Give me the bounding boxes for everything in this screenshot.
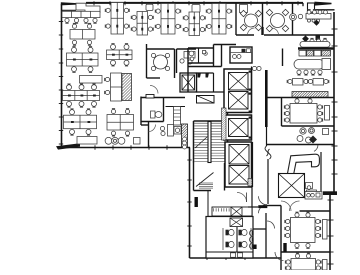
west wall of lower wing	[189, 148, 191, 259]
corridor poche wall	[265, 70, 268, 127]
north wall	[86, 2, 303, 4]
desk cluster	[131, 12, 153, 36]
stadium sofa table	[300, 42, 330, 48]
desk cluster	[105, 3, 129, 35]
door arc office SW	[267, 221, 275, 229]
pantry	[230, 47, 252, 63]
lower office walls	[141, 122, 149, 148]
urinals	[250, 230, 254, 249]
stair treads	[194, 123, 227, 161]
east wall lower ticks	[328, 200, 334, 264]
elevator shaft A	[224, 69, 252, 113]
thick wall under room A	[298, 47, 334, 49]
wc sinks	[189, 51, 207, 61]
small black square	[253, 245, 256, 250]
vestibule below stairs	[194, 163, 225, 191]
core small rooms	[197, 73, 229, 92]
lower wing west ticks	[187, 160, 191, 246]
north wall ticks	[94, 1, 298, 5]
elevator cab 5	[229, 166, 249, 185]
meeting room walls	[147, 44, 175, 78]
suite door arcs	[267, 201, 300, 211]
office desk	[180, 52, 195, 65]
wc room walls	[141, 98, 164, 122]
toilet 2	[239, 230, 242, 236]
entrance canopy taper	[315, 2, 332, 6]
side table	[80, 76, 103, 84]
scatter diamond 1	[314, 20, 320, 26]
lounge room west wall	[282, 49, 284, 67]
door bump	[146, 95, 154, 99]
hall wall	[141, 97, 185, 126]
room D north wall	[300, 210, 331, 212]
south wall of lower wing	[190, 257, 282, 259]
reception xbox	[231, 207, 242, 216]
entry column box	[303, 3, 315, 12]
desk cluster C	[64, 109, 97, 135]
east wall upper	[333, 12, 335, 192]
elevator shaft C	[225, 142, 252, 187]
lounge corner chairs	[297, 128, 315, 144]
desk cluster	[155, 4, 180, 35]
service elevator	[180, 73, 197, 92]
elevator cab 4	[229, 145, 249, 165]
desk cluster	[183, 12, 205, 36]
door arc room 2	[272, 28, 279, 35]
desk cluster	[206, 4, 231, 35]
lower office desk	[160, 125, 181, 137]
lounge nook chair	[290, 14, 303, 21]
stadium table	[294, 59, 331, 76]
vestibule door diagonal	[196, 173, 214, 187]
room E door arc	[275, 252, 284, 261]
cafe table 1	[287, 79, 309, 86]
corner square table	[323, 129, 329, 135]
west wall ticks	[59, 22, 63, 145]
lower left rooms walls	[253, 213, 266, 258]
reception desk top-left	[76, 3, 100, 12]
radiator coil west	[183, 137, 187, 149]
exec equipment xbox	[279, 174, 305, 198]
wc toilet	[151, 111, 162, 118]
lounge chairs trio	[105, 137, 125, 144]
room E sideboard	[323, 260, 328, 271]
core top rooms walls	[188, 45, 222, 93]
round table 1	[240, 10, 261, 30]
stair center rail	[208, 122, 211, 163]
exec desk	[288, 154, 320, 173]
room D table	[285, 212, 321, 248]
door leaf marks	[198, 73, 210, 78]
lobby door arcs	[237, 193, 247, 203]
credenza row segments	[299, 50, 306, 56]
lower office door arc	[149, 125, 156, 132]
meeting room door arc	[150, 86, 158, 94]
west wall jog line	[62, 9, 76, 11]
conference table north	[306, 10, 331, 23]
desk cluster B	[63, 84, 100, 107]
meeting room 1 walls	[236, 3, 264, 35]
desk cluster F	[107, 109, 134, 136]
exec east wall	[320, 152, 322, 191]
south wall of west wing	[57, 147, 190, 149]
small table at south wall	[134, 138, 141, 145]
elevator door jambs	[249, 71, 252, 139]
desk cluster D	[107, 44, 133, 66]
stair walls	[194, 107, 228, 163]
corridor chairs pair	[252, 66, 261, 70]
equipment box	[197, 96, 215, 104]
east wall lower	[329, 192, 331, 270]
scatter diamond 2	[302, 35, 309, 42]
lobby walls	[190, 187, 253, 217]
elevator cab 1	[229, 73, 249, 91]
core right wall	[252, 67, 253, 188]
south wall ticks	[95, 145, 167, 149]
lounge south wall	[265, 97, 334, 99]
stair up arrow	[195, 137, 207, 148]
south wall taper wedge	[56, 143, 80, 149]
round table 2	[266, 9, 288, 31]
room C west wall	[281, 98, 283, 127]
toilet 3	[226, 242, 229, 248]
vestibule mat hatch	[199, 183, 213, 188]
credenza at south wall	[77, 137, 97, 145]
northwest taper wall	[61, 2, 80, 5]
toilet 4	[239, 242, 242, 248]
elevator lobby double door	[248, 196, 267, 213]
meeting room 2 walls	[264, 3, 334, 35]
exec suite north door arc	[314, 145, 318, 152]
restroom sinks	[231, 253, 243, 257]
restroom block	[206, 217, 253, 259]
exec side furniture	[306, 183, 317, 196]
desk cluster E with files	[105, 73, 122, 101]
desk cluster A	[67, 47, 99, 73]
corridor wall with break	[265, 127, 271, 204]
elevator shaft B	[224, 115, 252, 140]
door arc room 1	[248, 28, 255, 35]
east wall upper ticks	[332, 29, 338, 174]
room C sideboard	[325, 106, 330, 121]
exec suite north wall	[267, 144, 334, 146]
desk pair cluster	[70, 23, 95, 45]
toilet 1	[226, 230, 229, 236]
kitchen counter fixtures	[305, 192, 322, 200]
west door leaf black	[195, 197, 198, 207]
corridor wall lower	[280, 206, 282, 271]
restroom janitor xbox	[230, 218, 243, 227]
pantry west wall	[221, 45, 223, 67]
small square mark	[316, 36, 321, 41]
credenza plain b	[314, 50, 321, 56]
chairs row at wall	[310, 38, 327, 43]
cafe table 2	[308, 79, 329, 86]
office room walls	[177, 49, 197, 73]
elevator cab 2	[229, 92, 249, 110]
top-right wall link	[315, 9, 335, 11]
stall lines	[223, 228, 251, 250]
room C south wall	[282, 125, 335, 127]
reception counter	[212, 207, 252, 216]
side table meeting room 1	[240, 5, 248, 13]
room divider wall	[281, 251, 330, 253]
storage room shelving	[166, 107, 186, 126]
room E table	[285, 253, 321, 270]
room D sideboard	[323, 220, 328, 240]
south lower wing ticks	[207, 256, 245, 260]
side table cluster5	[192, 5, 200, 13]
lounge corner diamond	[309, 136, 317, 144]
desk row below reception	[62, 11, 100, 23]
elevator cab 3	[229, 119, 249, 137]
corridor door leaf	[283, 243, 286, 253]
west wall	[61, 4, 63, 147]
meeting room round table	[151, 53, 169, 70]
room C table	[284, 98, 322, 123]
east wall jog bar	[323, 191, 337, 195]
side table cluster3	[146, 4, 153, 10]
